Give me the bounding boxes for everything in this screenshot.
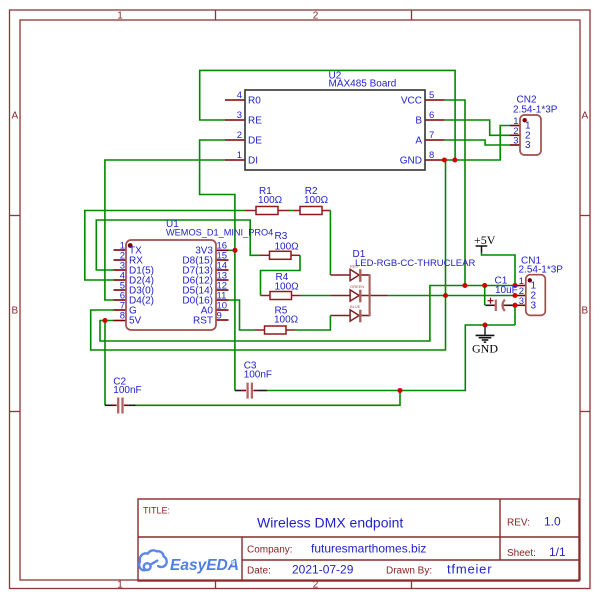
svg-text:9: 9 xyxy=(217,311,222,322)
svg-text:10uF: 10uF xyxy=(495,285,518,296)
svg-text:100Ω: 100Ω xyxy=(275,282,300,293)
svg-text:+5V: +5V xyxy=(474,233,496,247)
svg-text:5V: 5V xyxy=(129,316,142,327)
svg-text:WEMOS_D1_MINI_PRO4: WEMOS_D1_MINI_PRO4 xyxy=(166,228,273,238)
svg-text:REV:: REV: xyxy=(507,518,530,529)
svg-text:2: 2 xyxy=(313,11,319,22)
svg-text:B: B xyxy=(415,116,422,127)
svg-text:100nF: 100nF xyxy=(244,370,272,381)
svg-text:GND: GND xyxy=(472,341,498,355)
svg-text:Company:: Company: xyxy=(247,544,293,555)
svg-text:6: 6 xyxy=(429,110,434,121)
svg-text:100Ω: 100Ω xyxy=(275,242,300,253)
svg-text:1.0: 1.0 xyxy=(544,515,561,529)
svg-text:MAX485 Board: MAX485 Board xyxy=(329,79,397,90)
svg-text:1: 1 xyxy=(237,150,242,161)
svg-text:3: 3 xyxy=(525,140,531,151)
svg-text:R0: R0 xyxy=(248,96,261,107)
svg-text:100Ω: 100Ω xyxy=(274,315,299,326)
svg-text:100nF: 100nF xyxy=(113,385,141,396)
svg-text:7: 7 xyxy=(429,130,434,141)
svg-text:3: 3 xyxy=(519,296,524,307)
svg-text:R3: R3 xyxy=(275,231,288,242)
svg-text:2021-07-29: 2021-07-29 xyxy=(292,563,354,577)
svg-text:GREEN: GREEN xyxy=(350,284,364,289)
svg-text:8: 8 xyxy=(120,311,125,322)
svg-text:2.54-1*3P: 2.54-1*3P xyxy=(513,105,558,116)
svg-text:Wireless DMX endpoint: Wireless DMX endpoint xyxy=(257,515,403,531)
svg-text:1: 1 xyxy=(117,580,123,591)
svg-text:A: A xyxy=(11,111,18,122)
svg-text:Sheet:: Sheet: xyxy=(507,548,536,559)
svg-text:3: 3 xyxy=(531,301,537,312)
svg-text:futuresmarthomes.biz: futuresmarthomes.biz xyxy=(311,541,426,555)
svg-text:100Ω: 100Ω xyxy=(258,195,283,206)
svg-text:TITLE:: TITLE: xyxy=(143,506,170,516)
svg-text:DI: DI xyxy=(248,156,258,167)
svg-text:Drawn By:: Drawn By: xyxy=(386,566,432,577)
svg-text:A: A xyxy=(581,111,588,122)
svg-text:B: B xyxy=(581,306,588,317)
svg-text:Date:: Date: xyxy=(247,566,271,577)
svg-text:B: B xyxy=(11,306,18,317)
svg-text:3: 3 xyxy=(513,136,518,147)
svg-text:1/1: 1/1 xyxy=(549,545,566,559)
svg-text:VCC: VCC xyxy=(401,96,422,107)
svg-text:2: 2 xyxy=(237,130,242,141)
svg-text:3: 3 xyxy=(237,110,242,121)
svg-text:1: 1 xyxy=(117,11,123,22)
svg-text:EasyEDA: EasyEDA xyxy=(170,557,239,574)
svg-text:5: 5 xyxy=(429,90,434,101)
svg-text:tfmeier: tfmeier xyxy=(447,562,492,577)
svg-text:8: 8 xyxy=(429,150,434,161)
svg-text:RST: RST xyxy=(193,316,213,327)
svg-text:100Ω: 100Ω xyxy=(304,195,329,206)
svg-text:4: 4 xyxy=(237,90,242,101)
svg-text:2.54-1*3P: 2.54-1*3P xyxy=(519,265,564,276)
svg-text:RE: RE xyxy=(248,116,262,127)
svg-text:GND: GND xyxy=(400,156,422,167)
svg-text:DE: DE xyxy=(248,136,262,147)
svg-text:LED-RGB-CC-THRUCLEAR: LED-RGB-CC-THRUCLEAR xyxy=(355,258,475,269)
svg-text:A: A xyxy=(415,136,422,147)
svg-text:BLUE: BLUE xyxy=(350,304,361,309)
